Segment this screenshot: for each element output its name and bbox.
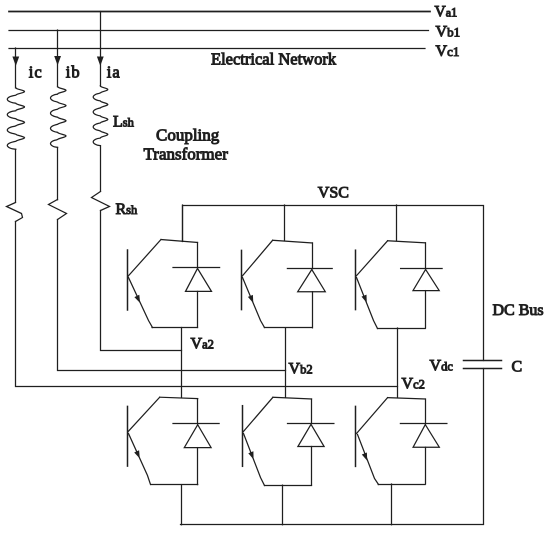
resistor Rsh phase a — [92, 192, 110, 211]
svg-text:C: C — [512, 359, 523, 376]
wire emitter stub Q6 — [391, 484, 393, 525]
wire leg phase c (Vc2 node) — [397, 328, 399, 398]
svg-text:VSC: VSC — [318, 185, 349, 202]
diode D3 — [401, 243, 443, 328]
transistor Q5 (IGBT) — [243, 397, 312, 485]
transistor Q4 (IGBT) — [128, 397, 198, 484]
svg-text:Vdc: Vdc — [430, 358, 454, 375]
wire phase c to Vc2 — [16, 222, 398, 387]
diode D6 — [400, 399, 447, 484]
wire bottom DC rail — [181, 369, 484, 525]
capacitor C plates — [464, 360, 502, 362]
svg-text:DC Bus: DC Bus — [493, 302, 544, 319]
svg-text:Transformer: Transformer — [144, 144, 229, 163]
transistor Q1 (IGBT) — [128, 240, 198, 328]
diode D5 — [288, 399, 334, 485]
wire collector stub Q2 — [284, 205, 286, 241]
current arrow ia — [97, 57, 104, 67]
current arrow ic — [12, 57, 19, 67]
current arrow ib — [54, 56, 61, 66]
svg-text:ic: ic — [29, 62, 43, 81]
svg-text:Vb2: Vb2 — [289, 361, 313, 378]
svg-text:Electrical Network: Electrical Network — [211, 50, 337, 69]
wire bus Vc1 — [9, 48, 425, 50]
wire collector stub Q3 — [396, 205, 398, 241]
inductor Lsh phase b — [51, 87, 67, 148]
resistor Rsh phase c — [7, 203, 23, 222]
diode D2 — [287, 243, 332, 328]
svg-text:Coupling: Coupling — [156, 125, 220, 144]
svg-text:Vc2: Vc2 — [402, 376, 425, 393]
wire phase c mid — [15, 149, 17, 202]
wire emitter bottom Q2 — [264, 327, 312, 329]
wire emitter bottom Q3 — [378, 328, 426, 330]
resistor Rsh phase b — [49, 200, 67, 220]
wire emitter stub Q4 — [181, 485, 183, 525]
svg-text:ia: ia — [107, 63, 121, 82]
svg-text:Va2: Va2 — [191, 336, 214, 353]
transistor Q3 (IGBT) — [356, 241, 426, 329]
svg-text:Vc1: Vc1 — [436, 43, 460, 60]
diode D4 — [173, 399, 219, 485]
svg-text:Vb1: Vb1 — [436, 24, 461, 41]
wire emitter bottom Q5 — [265, 485, 312, 487]
diode D1 — [173, 243, 220, 328]
svg-text:Rsh: Rsh — [116, 201, 139, 218]
wire phase a mid — [100, 146, 102, 192]
transistor Q6 (IGBT) — [356, 398, 426, 485]
wire leg phase a (Va2 node) — [181, 328, 183, 398]
wire phase a to Va2 — [101, 211, 182, 351]
wire bus Va1 — [9, 11, 430, 13]
svg-text:Va1: Va1 — [435, 3, 458, 20]
svg-text:Lsh: Lsh — [113, 113, 135, 130]
wire emitter bottom Q4 — [151, 484, 198, 486]
inductor Lsh phase a — [93, 86, 108, 146]
svg-text:ib: ib — [66, 63, 81, 82]
wire phase b drop — [57, 30, 59, 87]
wire phase b mid — [57, 147, 59, 199]
wire leg phase b (Vb2 node) — [285, 328, 287, 398]
inductor Lsh phase c — [7, 88, 24, 150]
transistor Q2 (IGBT) — [242, 240, 313, 327]
wire bus Vb1 — [9, 30, 429, 32]
wire phase c drop — [15, 48, 17, 88]
wire collector stub Q1 — [182, 205, 184, 241]
wire top DC rail — [183, 206, 484, 361]
wire emitter stub Q5 — [282, 485, 284, 525]
wire phase b to Vb2 — [58, 220, 286, 371]
wire phase a drop — [100, 12, 102, 87]
wire emitter bottom Q6 — [378, 484, 425, 486]
wire emitter bottom Q1 — [152, 327, 198, 329]
